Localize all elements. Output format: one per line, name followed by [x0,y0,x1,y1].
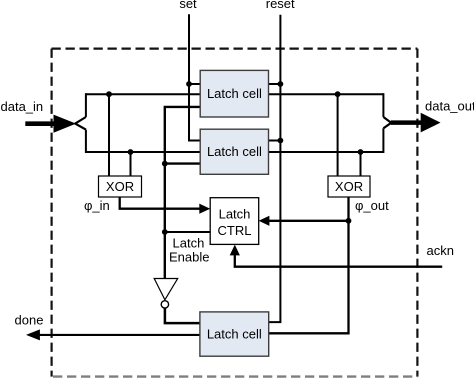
arrowhead ackn into CTRL bottom [230,245,240,256]
svg-text:φ_in: φ_in [84,198,110,213]
svg-text:Latch cell: Latch cell [207,144,262,159]
junction dot set/latch1 [186,81,192,87]
svg-text:Latch: Latch [219,206,251,221]
svg-text:reset: reset [266,0,295,11]
XOR right box [328,176,370,197]
junction dot reset/latch2 [278,138,284,144]
wire top data rail left [86,93,201,95]
junction dot top rail right [335,91,341,97]
inverter bubble [161,301,168,308]
wire left fork diagonals [75,117,86,130]
wire XOR-R input drop 1 [337,94,339,176]
junction dot reset/latch1 [278,81,284,87]
wire left fork vertical lower [85,130,87,153]
wire right fork vertical lower [382,128,384,153]
XOR left box [99,176,142,197]
svg-text:φ_out: φ_out [355,198,389,213]
dashed enclosure left border [50,49,52,377]
junction dot bottom rail right [358,149,364,155]
svg-text:Latch: Latch [173,236,205,251]
svg-text:Latch cell: Latch cell [207,327,262,342]
wire XOR-L input drop 2 [130,152,132,176]
svg-text:ackn: ackn [427,243,454,258]
junction dot enable/latch2 [162,161,168,167]
junction dot enable/CTRL [162,229,168,235]
dashed enclosure right border [416,49,418,377]
wire XOR-L output to Latch CTRL [120,197,200,209]
wire done line [39,334,200,336]
wire bottom data rail left [86,151,201,153]
wire reset branch to latch2 [269,140,281,142]
wire phi_out branch into CTRL right [269,220,349,222]
wire latch enable branch to CTRL [165,231,210,233]
wire latch enable vertical [165,107,201,279]
wire reset vertical down to latch3 [269,15,281,322]
arrowhead phi_out into CTRL [259,216,270,226]
svg-text:CTRL: CTRL [218,223,252,238]
data_in bus arrowhead [54,115,77,133]
svg-text:Latch cell: Latch cell [207,86,262,101]
svg-text:XOR: XOR [106,179,134,194]
wire top data rail right [268,93,383,95]
junction dot bottom rail left [128,149,134,155]
data_out bus arrowhead [421,113,441,133]
svg-text:data_in: data_in [1,99,44,114]
wire right fork vertical upper [382,93,384,117]
latch cell 3 box [200,312,269,356]
data_out bus shaft [391,120,422,125]
arrowhead phi_in into CTRL [199,204,210,214]
svg-text:Enable: Enable [169,250,209,265]
data_in bus shaft [25,121,54,126]
wire ackn line [235,255,442,267]
svg-text:set: set [179,0,197,11]
wire reset branch to latch1 [268,83,280,85]
latch cell 1 box [200,70,268,117]
latch cell 2 box [200,129,268,174]
wire XOR-R output vertical down to latch3 [269,197,349,333]
inverter triangle [154,279,178,300]
dashed enclosure top border [52,47,418,49]
Latch CTRL box [210,198,259,245]
wire XOR-R input drop 2 [360,152,362,176]
junction dot phi_out/CTRL [346,218,352,224]
wire bottom data rail right [269,151,384,153]
svg-text:data_out: data_out [425,99,474,114]
wire inverter output to latch3 [165,308,200,323]
wire left fork vertical upper [85,93,87,117]
arrowhead done [26,329,40,340]
dashed enclosure bottom border (gray) [53,375,417,377]
wire latch enable branch to latch2 [165,162,201,164]
wire XOR-L input drop 1 [108,94,110,176]
svg-text:XOR: XOR [335,179,363,194]
wire set branch to latch1 [189,83,200,85]
junction dot top rail left [106,91,112,97]
wire right fork diagonals [383,117,391,128]
wire set vertical [189,14,200,140]
svg-text:done: done [15,313,44,328]
